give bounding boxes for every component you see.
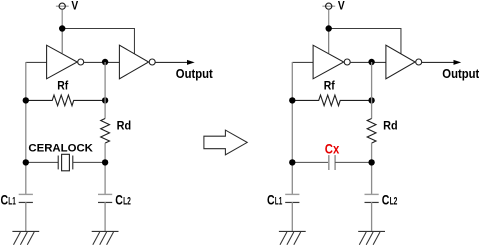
- svg-text:Output: Output: [442, 66, 479, 81]
- junction: Rf left (left circuit): [23, 97, 29, 103]
- wire: left rail (right circuit): [291, 62, 293, 194]
- power terminal V (left circuit): [56, 3, 69, 9]
- capacitor CL2 (left circuit): [98, 194, 112, 231]
- resistor Rd (right circuit): [367, 119, 376, 144]
- ground (below CL2, left circuit): [92, 231, 119, 244]
- junction: Rf left (right circuit): [289, 97, 295, 103]
- svg-text:C: C: [267, 193, 275, 208]
- resistor Rf (left circuit): [26, 95, 105, 106]
- wire: V terminal down to power node (left circuit): [61, 9, 63, 28]
- wire: input node to inverter 1 (right circuit): [292, 61, 313, 63]
- svg-text:Rd: Rd: [117, 119, 132, 133]
- svg-text:L2: L2: [390, 196, 398, 208]
- svg-text:L1: L1: [275, 196, 283, 208]
- capacitor CL1 (right circuit): [285, 194, 299, 231]
- svg-text:L2: L2: [123, 196, 131, 208]
- ground (below CL2, right circuit): [358, 231, 385, 244]
- junction: resonator row left (right circuit): [289, 159, 295, 165]
- svg-text:Rf: Rf: [57, 81, 68, 93]
- wire: power bus to inverter 2 (left circuit): [62, 29, 134, 54]
- inverter 1 (left circuit): [47, 45, 84, 79]
- svg-text:Rf: Rf: [324, 81, 335, 93]
- power terminal V (right circuit): [322, 3, 335, 9]
- inverter 2 (right circuit): [386, 45, 422, 79]
- junction: output node (left circuit): [102, 59, 108, 65]
- capacitor CL2 (right circuit): [365, 194, 379, 231]
- wire: output node to Rd (right circuit): [371, 62, 373, 119]
- svg-text:Output: Output: [176, 66, 214, 81]
- inverter 1 (right circuit): [313, 45, 350, 79]
- wire: power node down to inverter 1 (right circuit): [328, 29, 330, 54]
- wire: V terminal down to power node (right circuit): [328, 9, 330, 28]
- svg-text:V: V: [71, 0, 78, 12]
- wire: output with arrowhead (right circuit): [422, 60, 462, 65]
- ceramic resonator CERALOCK (left circuit): [26, 154, 105, 171]
- wire: Rd to resonator node (left circuit): [104, 143, 106, 194]
- svg-text:Cx: Cx: [325, 140, 340, 156]
- junction: Rf right (left circuit): [102, 97, 108, 103]
- junction: power node (left circuit): [59, 25, 65, 31]
- wire: output node to Rd (left circuit): [104, 62, 106, 119]
- wire: Rd to resonator node (right circuit): [371, 143, 373, 194]
- resistor Rd (left circuit): [101, 119, 110, 144]
- capacitor Cx (right circuit): [292, 155, 371, 170]
- svg-text:C: C: [115, 193, 123, 208]
- svg-text:L1: L1: [8, 196, 15, 208]
- junction: power node (right circuit): [326, 25, 332, 31]
- svg-text:Rd: Rd: [383, 119, 398, 133]
- wire: output with arrowhead (left circuit): [155, 60, 195, 65]
- wire: power bus to inverter 2 (right circuit): [329, 29, 401, 54]
- resistor Rf (right circuit): [292, 95, 371, 106]
- svg-text:C: C: [1, 193, 9, 208]
- svg-text:C: C: [382, 193, 390, 208]
- capacitor CL1 (left circuit): [19, 194, 33, 231]
- junction: Rf right (right circuit): [368, 97, 374, 103]
- ground (below CL1, left circuit): [12, 231, 39, 244]
- junction: resonator row right (right circuit): [368, 159, 374, 165]
- wire: left rail (left circuit): [25, 62, 27, 194]
- block arrow (replace resonator with Cx): [204, 130, 247, 155]
- junction: output node (right circuit): [368, 59, 374, 65]
- wire: inverter 1 output to inverter 2 input (right circuit): [350, 61, 386, 63]
- wire: inverter 1 output to inverter 2 input (left circuit): [84, 61, 120, 63]
- wire: power node down to inverter 1 (left circuit): [61, 29, 63, 54]
- svg-text:V: V: [338, 0, 345, 12]
- inverter 2 (left circuit): [119, 45, 155, 79]
- svg-text:CERALOCK: CERALOCK: [28, 143, 93, 155]
- ground (below CL1, right circuit): [279, 231, 306, 244]
- wire: input node to inverter 1 (left circuit): [26, 61, 47, 63]
- junction: resonator row right (left circuit): [102, 159, 108, 165]
- junction: resonator row left (left circuit): [23, 159, 29, 165]
